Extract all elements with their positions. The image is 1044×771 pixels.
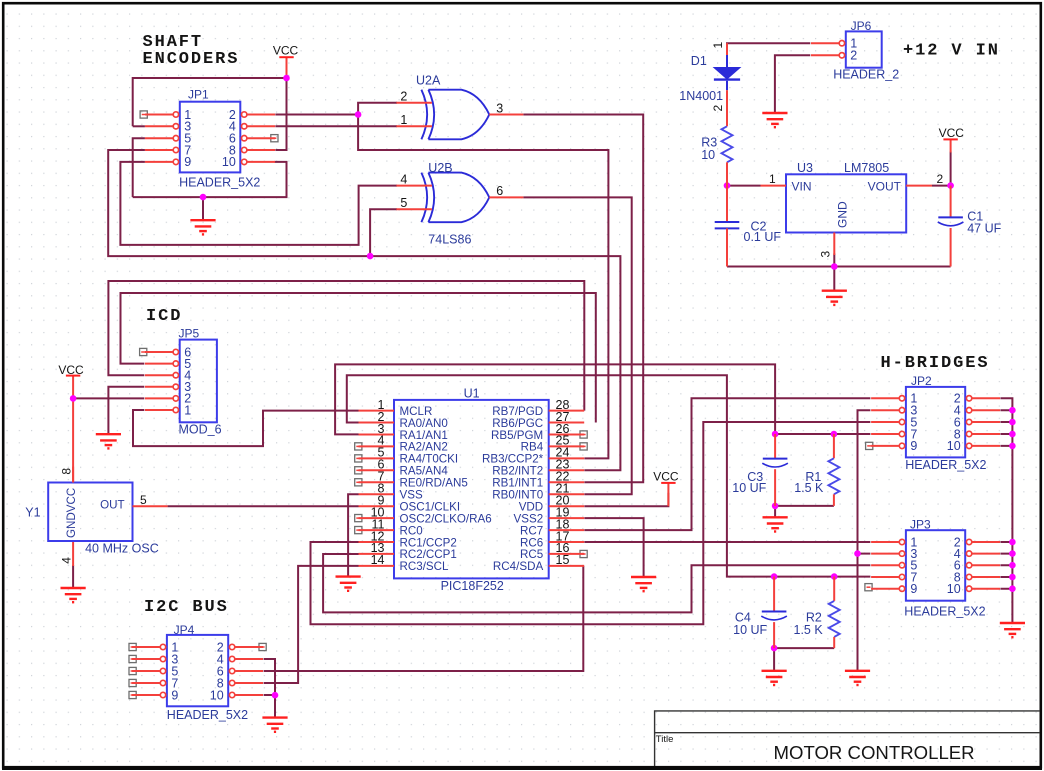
junction C3 top node xyxy=(772,431,779,438)
junction C4 top node xyxy=(771,573,778,580)
junction JP3 right rail at y=588.7 xyxy=(1009,585,1016,592)
wire junction up to U2A pin2 xyxy=(358,103,397,115)
no-connect JP4 left pin at y=647 xyxy=(129,643,136,650)
svg-text:H-BRIDGES: H-BRIDGES xyxy=(881,354,990,373)
connector JP4 (HEADER_5X2) xyxy=(132,623,263,722)
resistor R1 1.5 K xyxy=(794,434,839,506)
no-connect U1 left pin at y=446.4 xyxy=(355,443,362,450)
svg-text:10 UF: 10 UF xyxy=(733,623,767,637)
svg-text:9: 9 xyxy=(184,155,191,169)
junction C3 bottom node xyxy=(772,503,779,510)
wire net VCC: JP1 pin3 to VCC rail xyxy=(133,78,287,126)
svg-text:RC4/SDA: RC4/SDA xyxy=(493,560,544,573)
power symbol VCC VCC at ICD xyxy=(58,363,84,377)
resistor R3 10 xyxy=(701,126,732,185)
wire JP3 right pin links xyxy=(1000,554,1012,589)
svg-text:HEADER_5X2: HEADER_5X2 xyxy=(905,458,986,472)
junction JP3 right rail at y=577 xyxy=(1009,574,1016,581)
connector JP6 (HEADER_2) xyxy=(811,19,899,82)
junction JP1 pin2 / U2A / RB3 tee xyxy=(355,111,362,118)
capacitor C1 47 UF xyxy=(938,186,1002,267)
oscillator Y1 40 MHz OSC xyxy=(25,467,167,564)
junction JP1 ground loop tee xyxy=(200,194,207,201)
svg-text:14: 14 xyxy=(371,553,385,567)
wire net: U1 RA1/AN1 to C3/R1/JP2 pin7 xyxy=(335,364,775,434)
svg-text:HEADER_5X2: HEADER_5X2 xyxy=(179,176,260,190)
svg-text:10: 10 xyxy=(210,688,224,702)
no-connect U1 left pin at y=482.3 xyxy=(355,479,362,486)
wire JP6 pin2 to ground xyxy=(775,55,810,113)
junction C4 bottom node xyxy=(771,645,778,652)
svg-text:5: 5 xyxy=(140,493,147,507)
svg-text:8: 8 xyxy=(59,468,73,475)
svg-text:HEADER_5X2: HEADER_5X2 xyxy=(904,605,985,619)
svg-text:1.5 K: 1.5 K xyxy=(794,481,824,495)
wire R2 bottom to C4 bottom to ground xyxy=(774,648,834,671)
wire VIN node to U3 pin1 xyxy=(727,185,761,187)
svg-text:U2B: U2B xyxy=(428,161,452,175)
svg-text:3: 3 xyxy=(819,251,833,258)
svg-text:Y1: Y1 xyxy=(25,506,40,520)
wire U3 VOUT to VCC node xyxy=(932,185,951,187)
svg-text:3: 3 xyxy=(496,101,503,115)
capacitor C4 10 UF xyxy=(733,577,787,649)
no-connect JP4 left pin at y=671 xyxy=(129,667,136,674)
svg-text:VIN: VIN xyxy=(792,179,812,193)
no-connect U1 right pin at y=554 xyxy=(580,550,587,557)
ground U1 VSS xyxy=(336,577,361,591)
svg-text:40 MHz OSC: 40 MHz OSC xyxy=(85,541,159,555)
wire net: U1 RC1/CCP2 to JP2 pin5 xyxy=(311,422,871,624)
wire U1 VDD to VCC xyxy=(584,493,668,506)
wire JP2/JP3 right-side common to ground xyxy=(1000,398,1012,623)
junction JP3 pin3 tee xyxy=(854,550,861,557)
wire JP1 pin5 down to ground loop xyxy=(133,138,145,197)
svg-text:1N4001: 1N4001 xyxy=(679,89,723,103)
wire branch to U2B pin5 xyxy=(370,209,397,256)
capacitor C2 0.1 UF xyxy=(715,186,782,267)
capacitor C3 10 UF xyxy=(732,434,788,506)
svg-text:10: 10 xyxy=(947,582,961,596)
junction JP3 right rail at y=565.2 xyxy=(1009,562,1016,569)
wire net: U1 RC6 to JP3 pin1 xyxy=(584,541,870,543)
wire C3 node to JP2 pin7 xyxy=(775,433,870,435)
svg-text:10: 10 xyxy=(701,148,715,162)
wire U1 VSS to ground xyxy=(348,494,358,576)
svg-text:5: 5 xyxy=(400,196,407,210)
svg-text:HEADER_2: HEADER_2 xyxy=(833,68,899,82)
svg-text:0.1 UF: 0.1 UF xyxy=(744,230,782,244)
diode D1 1N4001 xyxy=(679,42,740,127)
svg-text:2: 2 xyxy=(711,105,725,112)
junction U3 VIN node xyxy=(724,182,731,189)
no-connect JP4 left pin at y=695 xyxy=(129,691,136,698)
svg-text:JP1: JP1 xyxy=(188,88,209,102)
svg-text:U2A: U2A xyxy=(416,74,441,88)
wire ground stub below JP1 xyxy=(202,197,204,220)
svg-text:VCC: VCC xyxy=(273,44,299,58)
wire U3 GND pin link xyxy=(833,254,835,267)
svg-text:MOTOR CONTROLLER: MOTOR CONTROLLER xyxy=(774,742,975,763)
resistor R2 1.5 K xyxy=(794,577,840,649)
wire net: U1 RC3/SCL to JP4 pin8 xyxy=(264,566,359,683)
wire rail ground stub xyxy=(833,267,835,291)
svg-text:1: 1 xyxy=(769,172,776,186)
wire VCC rail to Y1 pin8 (power column) xyxy=(72,376,74,483)
svg-text:I2C BUS: I2C BUS xyxy=(144,598,229,617)
wire net: JP2 pin3 / JP3 pin3 to ground xyxy=(858,410,871,671)
no-connect U1 left pin at y=458.4 xyxy=(355,455,362,462)
XOR gate U2B (74LS86) xyxy=(396,161,523,222)
wire net: JP5 pin1 to U1 MCLR xyxy=(133,410,359,446)
wire JP5 pin3 to ground xyxy=(108,387,144,434)
svg-text:2: 2 xyxy=(400,90,407,104)
IC U1 PIC18F252 xyxy=(359,386,585,593)
svg-text:VCC: VCC xyxy=(653,469,679,483)
svg-text:47 UF: 47 UF xyxy=(967,222,1001,236)
wire JP5 pin2 to VCC rail xyxy=(73,397,144,399)
wire U2A output 3 to U1 RB1/INT1 xyxy=(523,115,643,483)
svg-text:JP4: JP4 xyxy=(174,623,195,637)
pin Y1 pin4 stub xyxy=(72,541,74,566)
wire net: JP1 pin9 to U2B pin4 xyxy=(120,162,397,245)
ground below JP4 xyxy=(262,718,287,732)
svg-text:74LS86: 74LS86 xyxy=(428,233,471,247)
svg-text:2: 2 xyxy=(850,49,857,63)
wire net: U1 RA0/AN0 to C4/R2/JP3 pin7 xyxy=(347,375,871,576)
svg-text:10 UF: 10 UF xyxy=(732,481,766,495)
wire JP1 pin3 stub link xyxy=(133,125,145,127)
ground JP2/JP3 pin3 net xyxy=(845,671,870,685)
svg-text:JP3: JP3 xyxy=(910,517,931,531)
svg-text:1.5 K: 1.5 K xyxy=(794,623,824,637)
XOR gate U2A (74LS86) xyxy=(396,74,523,140)
no-connect JP4 pin2 xyxy=(259,643,266,650)
svg-text:1: 1 xyxy=(400,113,407,127)
junction JP2 right rail at y=410.2 xyxy=(1009,407,1016,414)
power symbol VCC VCC at U1 VDD xyxy=(653,469,679,483)
no-connect U1 left pin at y=470.3 xyxy=(355,467,362,474)
no-connect JP1 pin6 xyxy=(271,135,278,142)
no-connect JP2 pin9 xyxy=(866,442,873,449)
junction U2B pin5 tee xyxy=(367,253,374,260)
wire R1 bottom to C3 bottom to ground xyxy=(775,506,834,517)
svg-text:PIC18F252: PIC18F252 xyxy=(441,579,504,593)
wire JP1 pin4 to U2A pin1 xyxy=(275,125,397,127)
svg-text:U1: U1 xyxy=(464,386,480,400)
svg-text:VCC: VCC xyxy=(939,126,965,140)
power symbol VCC VCC at shaft encoders xyxy=(273,44,299,58)
svg-text:ICD: ICD xyxy=(146,307,182,326)
svg-text:MOD_6: MOD_6 xyxy=(179,423,222,437)
junction JP2 right rail at y=445.9 xyxy=(1009,443,1016,450)
svg-text:2: 2 xyxy=(937,172,944,186)
no-connect JP3 pin9 xyxy=(865,584,872,591)
svg-text:9: 9 xyxy=(910,582,917,596)
connector JP5 (MOD_6) xyxy=(145,326,222,436)
no-connect U1 right pin at y=446.4 xyxy=(580,443,587,450)
no-connect U1 left pin at y=518.1 xyxy=(355,515,362,522)
wire net: U1 RC4/SDA to JP4 pin6 xyxy=(264,566,584,671)
ground U1 VSS2 xyxy=(631,577,656,591)
title block xyxy=(655,711,1040,766)
ground at JP5 pin3 xyxy=(96,434,121,448)
svg-text:Title: Title xyxy=(656,734,674,745)
svg-text:6: 6 xyxy=(496,184,503,198)
wire VCC rail drop to JP1 pin8 xyxy=(275,78,286,150)
no-connect JP1 pin1 xyxy=(140,111,147,118)
svg-text:JP5: JP5 xyxy=(179,326,200,340)
svg-text:10: 10 xyxy=(947,439,961,453)
wire U1 VSS2 to ground xyxy=(584,518,643,577)
connector JP2 (HEADER_5X2) xyxy=(871,374,1000,472)
svg-text:+12 V IN: +12 V IN xyxy=(903,42,1000,61)
svg-text:15: 15 xyxy=(556,553,570,567)
wire power supply ground rail xyxy=(727,266,951,268)
junction JP3 right rail at y=542 xyxy=(1009,539,1016,546)
wire JP4 pin10 link xyxy=(264,694,275,696)
wire U2B output 6 to U1 RB0/INT0 xyxy=(523,197,631,494)
wire JP3 pin2 link xyxy=(1000,541,1012,543)
svg-text:ENCODERS: ENCODERS xyxy=(143,50,240,69)
junction R2 top node xyxy=(831,573,838,580)
svg-text:VOUT: VOUT xyxy=(868,179,902,193)
wire net: JP1 pin7 / U2B in5 to U1 RB2 xyxy=(108,150,620,470)
ground power supply rail xyxy=(822,291,847,305)
pin VCC stub at JP1 xyxy=(286,57,288,78)
connector JP1 (HEADER_5X2) xyxy=(145,88,275,190)
wire Y1 OUT to U1 OSC1/CLKI xyxy=(168,505,359,507)
ground below Y1 xyxy=(61,588,86,602)
svg-text:9: 9 xyxy=(910,439,917,453)
wire JP1 pin2 to junction xyxy=(275,114,358,116)
wire JP3 pin3 stub link xyxy=(858,553,871,555)
wire JP4 ground stub xyxy=(274,695,276,717)
no-connect U1 right pin at y=434.5 xyxy=(580,431,587,438)
wire Y1 pin4 to ground xyxy=(72,565,74,588)
no-connect JP5 pin6 xyxy=(140,348,147,355)
svg-text:JP6: JP6 xyxy=(851,19,872,33)
svg-text:4: 4 xyxy=(400,173,407,187)
ground below JP1 xyxy=(190,220,215,234)
svg-text:OUT: OUT xyxy=(100,499,124,512)
svg-text:D1: D1 xyxy=(691,54,707,68)
svg-text:JP2: JP2 xyxy=(911,374,932,388)
junction VCC / JP5 pin2 tee xyxy=(70,395,77,402)
junction U3 VOUT node xyxy=(947,182,954,189)
wire net: U1 RC2/CCP1 to JP3 pin5 xyxy=(323,554,870,612)
no-connect JP4 left pin at y=683 xyxy=(129,679,136,686)
wire VCC drop to VOUT node xyxy=(950,152,952,186)
wire JP2 right pin links xyxy=(1000,410,1012,446)
svg-text:VCC: VCC xyxy=(58,363,84,377)
svg-text:GNDVCC: GNDVCC xyxy=(65,488,78,538)
junction JP2 right rail at y=422 xyxy=(1009,419,1016,426)
no-connect U1 left pin at y=530.1 xyxy=(355,527,362,534)
junction R1 top node xyxy=(831,431,838,438)
svg-text:LM7805: LM7805 xyxy=(844,161,889,175)
svg-text:9: 9 xyxy=(171,688,178,702)
regulator U3 LM7805 xyxy=(761,161,944,257)
pin VCC stub at U1 VDD xyxy=(667,483,669,506)
junction JP2 right rail at y=434 xyxy=(1009,431,1016,438)
svg-text:GND: GND xyxy=(836,201,850,228)
wire JP4 pin4 to pin10/ground xyxy=(264,659,275,695)
junction VCC / JP1 pin8 tee xyxy=(283,75,290,82)
ground H-bridge headers common xyxy=(1000,623,1025,637)
svg-text:10: 10 xyxy=(222,155,236,169)
junction ground rail tee xyxy=(831,263,838,270)
wire net: JP5 pin4 to U1 RB7/PGD xyxy=(108,281,584,411)
ground below C4/R2 xyxy=(762,671,787,685)
wire net: JP5 pin5 to U1 RB6/PGC xyxy=(121,293,596,423)
pin VCC stub at C1 xyxy=(950,140,952,153)
power symbol VCC VCC at regulator output xyxy=(939,126,965,140)
svg-text:4: 4 xyxy=(59,557,73,564)
ground at JP6 pin2 xyxy=(762,113,787,127)
no-connect JP4 left pin at y=659 xyxy=(129,655,136,662)
svg-text:U3: U3 xyxy=(797,161,813,175)
svg-text:1: 1 xyxy=(184,403,191,417)
svg-text:RC3/SCL: RC3/SCL xyxy=(400,560,450,573)
ground below C3/R1 xyxy=(763,517,788,531)
connector JP3 (HEADER_5X2) xyxy=(871,517,1000,618)
wire ground loop to JP1 pin10 xyxy=(133,162,287,197)
svg-text:1: 1 xyxy=(711,42,725,49)
wire JP6 pin1 to D1 xyxy=(727,43,810,50)
wire junction down to U1 RB3/CCP2* xyxy=(358,115,608,459)
junction JP3 right rail at y=553.6 xyxy=(1009,550,1016,557)
junction JP4 pin10 / ground tee xyxy=(272,692,279,699)
svg-text:HEADER_5X2: HEADER_5X2 xyxy=(167,708,248,722)
wire net: U1 RC7 to JP2 pin1 xyxy=(584,398,870,530)
